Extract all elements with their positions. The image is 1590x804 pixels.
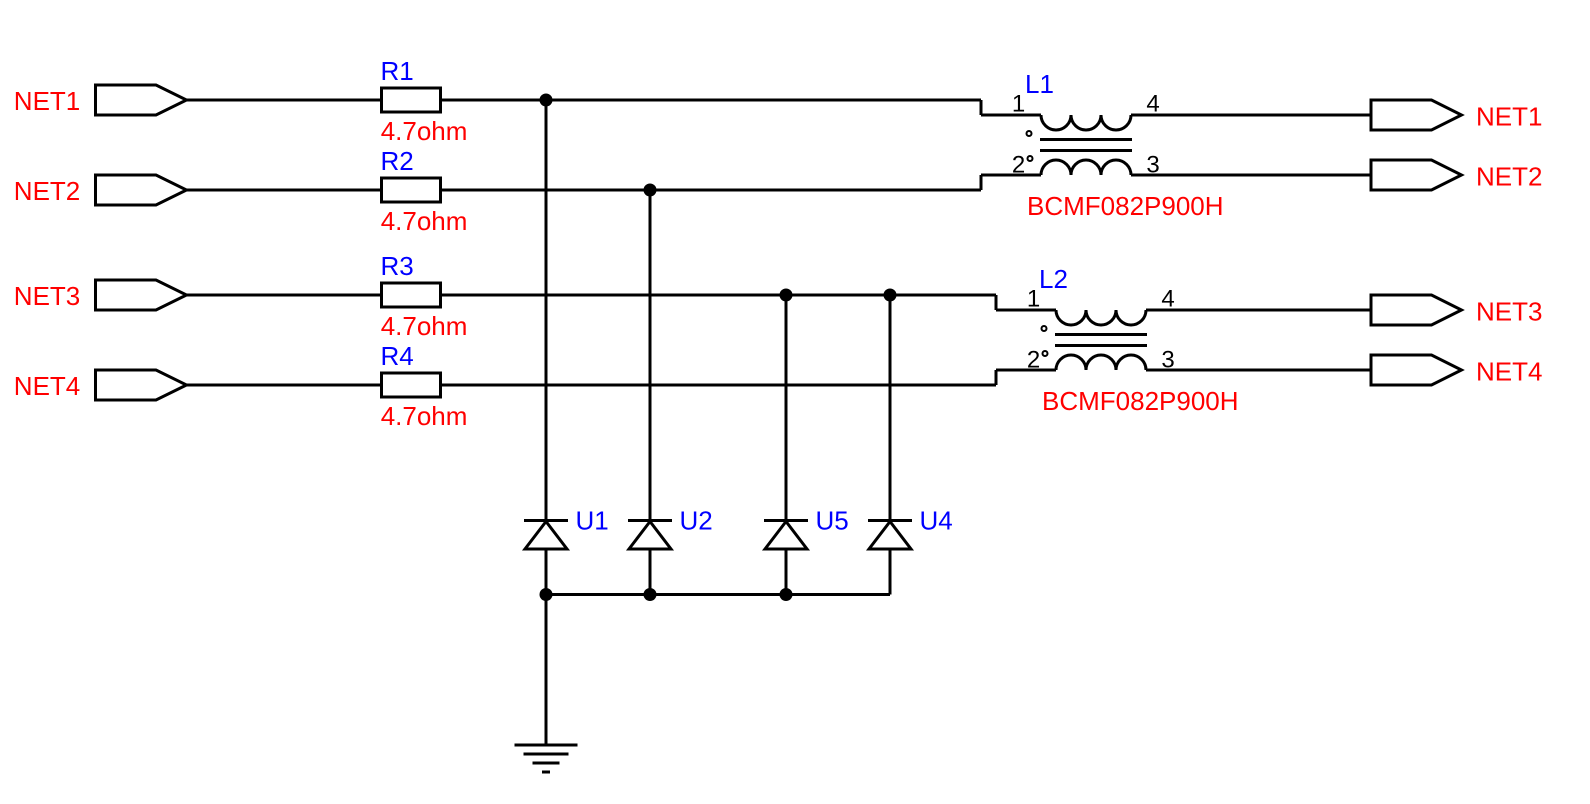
svg-text:4.7ohm: 4.7ohm xyxy=(381,401,468,431)
svg-text:1: 1 xyxy=(1027,286,1040,313)
svg-text:1: 1 xyxy=(1012,91,1025,118)
svg-text:NET4: NET4 xyxy=(14,371,80,401)
svg-text:BCMF082P900H: BCMF082P900H xyxy=(1042,386,1239,416)
svg-text:NET3: NET3 xyxy=(1476,296,1542,326)
svg-text:NET3: NET3 xyxy=(14,281,80,311)
svg-text:L1: L1 xyxy=(1025,69,1054,99)
svg-text:R1: R1 xyxy=(381,56,414,86)
svg-text:U5: U5 xyxy=(816,506,849,536)
svg-text:4: 4 xyxy=(1161,286,1174,313)
svg-text:U2: U2 xyxy=(680,506,713,536)
svg-text:4.7ohm: 4.7ohm xyxy=(381,116,468,146)
svg-text:2: 2 xyxy=(1027,347,1040,374)
svg-text:NET1: NET1 xyxy=(14,86,80,116)
svg-text:U4: U4 xyxy=(920,506,953,536)
svg-text:3: 3 xyxy=(1146,152,1159,179)
svg-text:R2: R2 xyxy=(381,146,414,176)
svg-text:2: 2 xyxy=(1012,152,1025,179)
svg-text:NET4: NET4 xyxy=(1476,356,1542,386)
svg-text:BCMF082P900H: BCMF082P900H xyxy=(1027,191,1224,221)
svg-text:4.7ohm: 4.7ohm xyxy=(381,206,468,236)
svg-text:NET2: NET2 xyxy=(1476,161,1542,191)
svg-text:U1: U1 xyxy=(576,506,609,536)
svg-text:3: 3 xyxy=(1161,347,1174,374)
svg-text:4: 4 xyxy=(1146,91,1159,118)
svg-text:L2: L2 xyxy=(1039,264,1068,294)
svg-text:NET1: NET1 xyxy=(1476,101,1542,131)
svg-text:R4: R4 xyxy=(381,341,414,371)
svg-text:4.7ohm: 4.7ohm xyxy=(381,311,468,341)
svg-text:R3: R3 xyxy=(381,251,414,281)
svg-text:NET2: NET2 xyxy=(14,176,80,206)
